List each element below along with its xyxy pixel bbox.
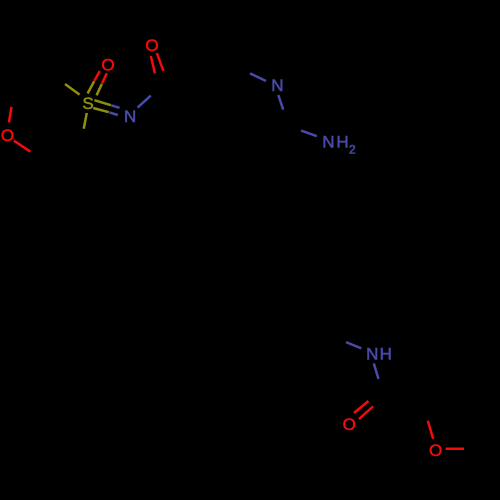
svg-text:S: S [82,94,93,113]
svg-text:N: N [271,76,283,95]
svg-text:O: O [343,415,356,434]
svg-text:O: O [429,441,442,460]
svg-text:O: O [145,36,158,55]
svg-text:O: O [1,126,14,145]
svg-text:N: N [322,133,334,152]
svg-text:O: O [101,56,114,75]
svg-text:H: H [380,344,392,363]
svg-text:N: N [124,107,136,126]
svg-text:H: H [336,133,348,152]
svg-text:2: 2 [349,142,356,156]
svg-text:N: N [366,344,378,363]
